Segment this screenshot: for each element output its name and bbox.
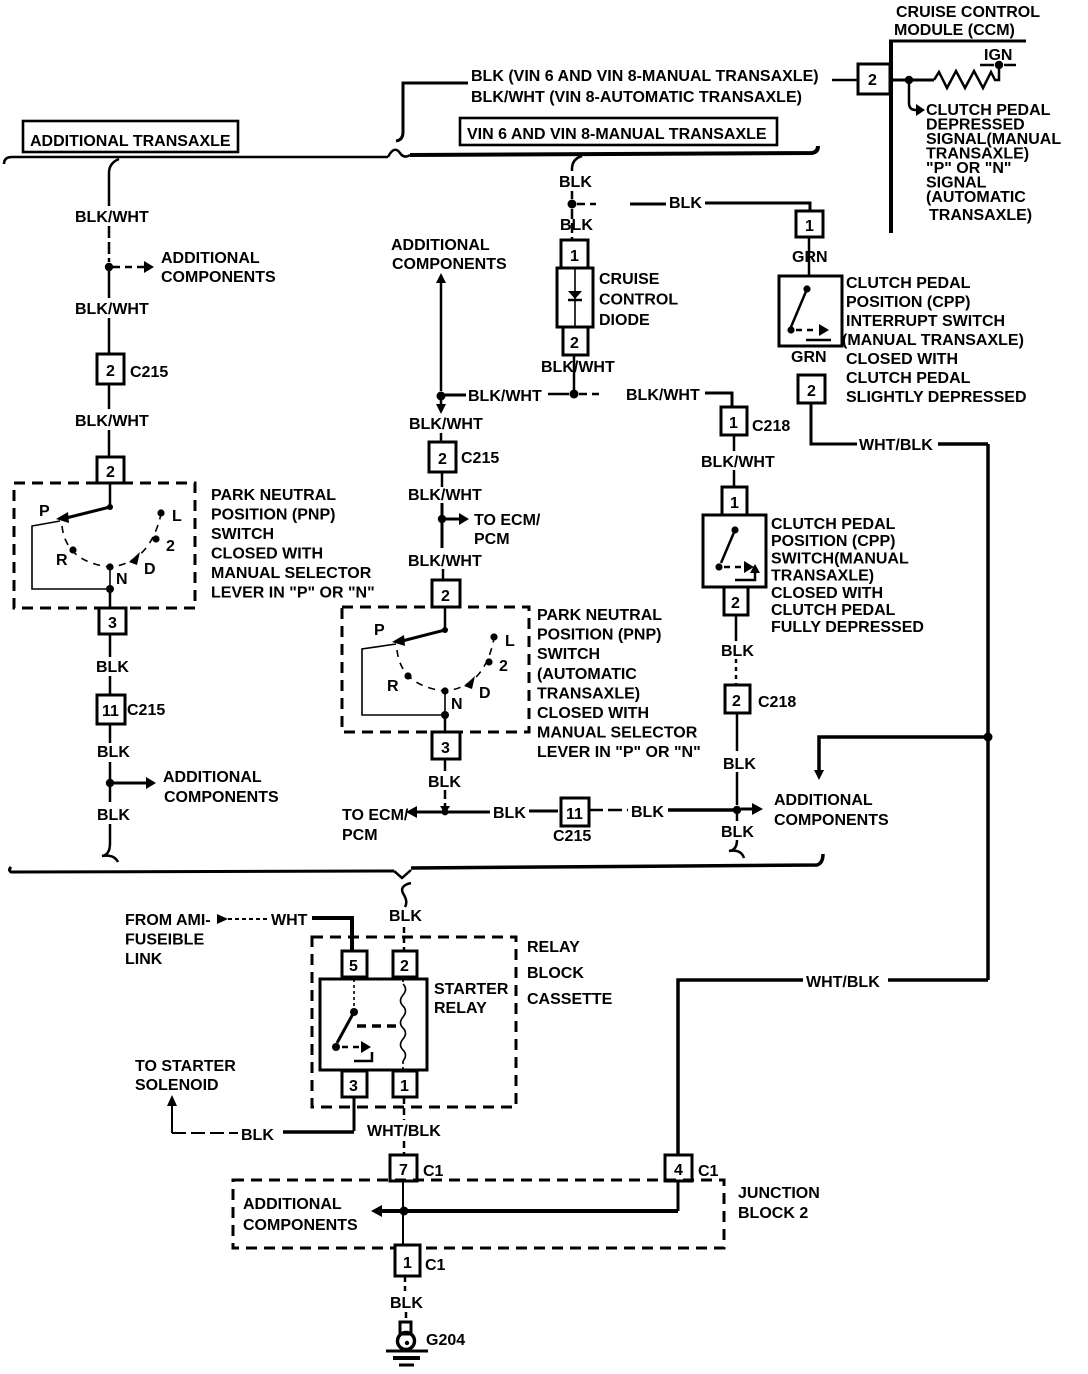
svg-text:P: P xyxy=(374,622,385,639)
svg-text:C1: C1 xyxy=(698,1163,719,1180)
svg-text:2: 2 xyxy=(106,464,115,481)
contact R xyxy=(404,672,411,679)
svg-text:BLK/WHT: BLK/WHT xyxy=(408,487,482,504)
connector 1 C218 (middle run) xyxy=(721,407,790,435)
svg-text:2: 2 xyxy=(499,658,508,675)
junction dot xyxy=(905,76,913,84)
label TO ECM/ PCM (bottom) xyxy=(342,807,409,844)
svg-text:STARTER: STARTER xyxy=(434,981,509,998)
wire pin2 to pivot xyxy=(109,483,112,507)
svg-text:MODULE (CCM): MODULE (CCM) xyxy=(894,22,1015,39)
relay coil to switch dashed link xyxy=(357,1024,398,1028)
svg-text:C215: C215 xyxy=(127,702,165,719)
connector 2 (CPP switch) xyxy=(724,587,748,615)
bus wire lower right xyxy=(411,854,823,868)
wire BLK into diode xyxy=(571,209,574,240)
wire xyxy=(108,226,111,262)
connector 2 (CPP interrupt switch) xyxy=(798,375,825,403)
wire WHT/BLK pin 1 down xyxy=(403,1097,406,1155)
svg-text:C215: C215 xyxy=(461,450,499,467)
relay coil xyxy=(401,979,406,1070)
label ADDITIONAL COMPONENTS xyxy=(161,250,276,286)
svg-text:CASSETTE: CASSETTE xyxy=(527,991,613,1008)
wire additional components run xyxy=(371,1181,678,1217)
wire BLK horizontal to ECM xyxy=(406,806,490,818)
svg-text:2: 2 xyxy=(868,72,877,89)
svg-text:BLK: BLK xyxy=(493,805,526,822)
relay switch K xyxy=(332,979,372,1061)
wire CCM internal to resistor xyxy=(891,79,934,82)
wire BLK/WHT drop from bus (left) xyxy=(109,159,119,206)
svg-text:BLK/WHT (VIN 8-AUTOMATIC TRANS: BLK/WHT (VIN 8-AUTOMATIC TRANSAXLE) xyxy=(471,89,802,106)
svg-text:CONTROL: CONTROL xyxy=(599,292,678,309)
svg-text:COMPONENTS: COMPONENTS xyxy=(161,269,276,286)
svg-text:ADDITIONAL: ADDITIONAL xyxy=(774,792,873,809)
wire WHT/BLK to right rail xyxy=(938,442,988,446)
contact 2 xyxy=(152,535,159,542)
svg-text:N: N xyxy=(116,571,128,588)
wire xyxy=(108,430,111,457)
svg-text:11: 11 xyxy=(102,703,119,720)
svg-text:WHT/BLK: WHT/BLK xyxy=(859,437,933,454)
node junction BLK xyxy=(568,200,577,209)
contact L xyxy=(490,633,497,640)
svg-text:PCM: PCM xyxy=(342,827,378,844)
wire BLK from bus to pin 2 xyxy=(402,883,411,951)
svg-text:VIN 6 AND VIN 8-MANUAL TRANSAX: VIN 6 AND VIN 8-MANUAL TRANSAXLE xyxy=(467,126,767,143)
relay pin 3 xyxy=(342,1071,367,1097)
wire stub to CCM connector xyxy=(832,79,857,82)
svg-text:2: 2 xyxy=(570,335,579,352)
wire WHT/BLK right rail xyxy=(986,444,990,980)
svg-text:TO ECM/: TO ECM/ xyxy=(342,807,409,824)
switch blade to P xyxy=(442,627,448,633)
contact frame wire xyxy=(362,644,441,715)
CPP interrupt switch S xyxy=(779,276,842,346)
svg-text:POSITION (PNP): POSITION (PNP) xyxy=(537,627,661,644)
wire BLK pin 3 to starter solenoid xyxy=(167,1095,354,1133)
svg-text:COMPONENTS: COMPONENTS xyxy=(774,812,889,829)
label PARK NEUTRAL POSITION (PNP) SWITCH (AUTOMATIC TRANSAXLE) xyxy=(537,607,701,761)
CCM boundary line xyxy=(889,41,1026,233)
PNP1 internals xyxy=(32,483,182,608)
svg-text:L: L xyxy=(172,508,182,525)
branch arrow to additional components xyxy=(741,803,763,815)
svg-text:WHT/BLK: WHT/BLK xyxy=(367,1123,441,1140)
svg-text:ADDITIONAL: ADDITIONAL xyxy=(243,1196,342,1213)
svg-text:CLOSED WITH: CLOSED WITH xyxy=(537,705,649,722)
wire 7 C1 down to 1 C1 xyxy=(402,1181,404,1245)
node junction BLK xyxy=(733,806,741,814)
connector 11 C215 (inline) xyxy=(553,798,591,845)
svg-text:C1: C1 xyxy=(423,1163,444,1180)
svg-text:JUNCTION: JUNCTION xyxy=(738,1185,820,1202)
svg-text:D: D xyxy=(479,685,491,702)
wire BLK xyxy=(735,615,738,641)
svg-text:BLK: BLK xyxy=(560,217,593,234)
wire arrow below junction xyxy=(436,400,446,414)
bus wire vin 6/8 manual transaxle xyxy=(410,146,818,155)
svg-text:N: N xyxy=(451,696,463,713)
relay pin 5 xyxy=(342,951,367,977)
svg-text:CLOSED WITH: CLOSED WITH xyxy=(846,351,958,368)
svg-text:3: 3 xyxy=(441,740,450,757)
wire branch up to additional components xyxy=(436,273,446,391)
wire N to output xyxy=(444,691,446,715)
svg-text:(MANUAL TRANSAXLE): (MANUAL TRANSAXLE) xyxy=(842,332,1024,349)
svg-text:BLK: BLK xyxy=(97,744,130,761)
svg-text:(AUTOMATIC: (AUTOMATIC xyxy=(926,189,1026,206)
svg-text:4: 4 xyxy=(674,1162,683,1179)
label TO ECM/ PCM xyxy=(474,512,541,548)
svg-text:C215: C215 xyxy=(130,364,168,381)
contact frame wire xyxy=(32,521,106,589)
svg-text:C218: C218 xyxy=(758,694,796,711)
svg-text:DIODE: DIODE xyxy=(599,312,650,329)
label ADDITIONAL COMPONENTS (junction block) xyxy=(243,1196,358,1234)
contact R xyxy=(69,546,76,553)
wire hook to lower bus xyxy=(102,787,118,862)
node junction BLK/WHT xyxy=(570,390,579,399)
svg-text:D: D xyxy=(144,561,156,578)
connector 7 C1 xyxy=(390,1155,444,1181)
svg-text:POSITION (CPP): POSITION (CPP) xyxy=(771,533,895,550)
svg-text:BLK: BLK xyxy=(723,756,756,773)
connector 1 (cruise control diode) xyxy=(561,240,588,268)
svg-text:BLK/WHT: BLK/WHT xyxy=(626,387,700,404)
node junction BLK/WHT (middle) xyxy=(437,392,446,401)
IGN terminal xyxy=(980,47,1016,69)
svg-text:3: 3 xyxy=(349,1078,358,1095)
svg-text:SWITCH: SWITCH xyxy=(211,526,274,543)
svg-text:C218: C218 xyxy=(752,418,790,435)
svg-text:RELAY: RELAY xyxy=(527,939,580,956)
svg-text:L: L xyxy=(505,633,515,650)
label JUNCTION BLOCK 2 xyxy=(738,1185,820,1222)
svg-text:BLK: BLK xyxy=(241,1127,274,1144)
label CRUISE CONTROL DIODE xyxy=(599,271,678,329)
svg-text:C215: C215 xyxy=(553,828,591,845)
svg-text:COMPONENTS: COMPONENTS xyxy=(392,256,507,273)
connector 2 C215 (middle) xyxy=(429,442,499,472)
wire xyxy=(108,318,111,354)
svg-text:1: 1 xyxy=(400,1078,409,1095)
svg-text:GRN: GRN xyxy=(791,349,827,366)
svg-text:R: R xyxy=(56,552,68,569)
svg-text:COMPONENTS: COMPONENTS xyxy=(243,1217,358,1234)
node junction + branch additional components xyxy=(106,762,156,789)
svg-text:BLK: BLK xyxy=(389,908,422,925)
wire WHT/BLK lower run xyxy=(678,980,988,1155)
svg-text:BLK: BLK xyxy=(631,804,664,821)
wire BLK xyxy=(109,724,112,743)
connector 2 C218 xyxy=(725,685,796,713)
wire xyxy=(529,810,558,813)
wire xyxy=(736,772,739,805)
contact L xyxy=(157,509,164,516)
svg-text:TRANSAXLE): TRANSAXLE) xyxy=(537,685,640,702)
wire to ground xyxy=(405,1276,406,1322)
svg-text:2: 2 xyxy=(441,588,450,605)
wire xyxy=(109,676,112,695)
label ADDITIONAL TRANSAXLE xyxy=(23,121,238,152)
contact arc dashed xyxy=(397,638,494,691)
svg-text:LEVER IN "P" OR "N": LEVER IN "P" OR "N" xyxy=(537,744,701,761)
svg-text:BLOCK 2: BLOCK 2 xyxy=(738,1205,808,1222)
svg-text:MANUAL SELECTOR: MANUAL SELECTOR xyxy=(537,725,698,742)
label PARK NEUTRAL POSITION (PNP) SWITCH xyxy=(211,487,375,602)
svg-text:PARK NEUTRAL: PARK NEUTRAL xyxy=(211,487,336,504)
svg-text:1: 1 xyxy=(730,495,739,512)
svg-text:1: 1 xyxy=(729,415,738,432)
connector 3 (PNP auto) xyxy=(432,732,460,759)
svg-text:BLK: BLK xyxy=(390,1295,423,1312)
wire BLK/WHT horizontal run xyxy=(445,393,732,407)
connector 2 (PNP manual) xyxy=(97,457,124,483)
svg-text:C1: C1 xyxy=(425,1257,446,1274)
module label CRUISE CONTROL MODULE (CCM) xyxy=(894,4,1040,39)
svg-text:1: 1 xyxy=(805,218,814,235)
relay block cassette dashed box xyxy=(312,937,516,1107)
contact 2 xyxy=(485,658,492,665)
svg-text:BLK (VIN 6 AND VIN 8-MANUAL TR: BLK (VIN 6 AND VIN 8-MANUAL TRANSAXLE) xyxy=(471,68,819,85)
svg-text:BLK/WHT: BLK/WHT xyxy=(468,388,542,405)
svg-text:LINK: LINK xyxy=(125,951,163,968)
wire BLK xyxy=(109,634,112,657)
svg-text:WHT: WHT xyxy=(271,912,308,929)
wire N to output xyxy=(109,567,111,589)
svg-text:BLK: BLK xyxy=(721,643,754,660)
wire xyxy=(735,659,738,685)
svg-text:G204: G204 xyxy=(426,1332,465,1349)
wire BLK drop from bus xyxy=(572,156,582,199)
signal branch arrow xyxy=(909,84,925,116)
cruise control diode D xyxy=(557,268,593,327)
svg-text:ADDITIONAL TRANSAXLE: ADDITIONAL TRANSAXLE xyxy=(30,133,231,150)
label clutch pedal position interrupt switch xyxy=(842,275,1027,406)
branch wire to additional components (right) xyxy=(814,737,984,780)
label ADDITIONAL COMPONENTS (middle) xyxy=(391,237,507,273)
svg-text:BLOCK: BLOCK xyxy=(527,965,584,982)
bus wire additional transaxle xyxy=(4,150,410,164)
svg-text:BLK: BLK xyxy=(559,174,592,191)
svg-text:BLK: BLK xyxy=(428,774,461,791)
svg-text:FULLY DEPRESSED: FULLY DEPRESSED xyxy=(771,619,924,636)
svg-text:TO ECM/: TO ECM/ xyxy=(474,512,541,529)
svg-text:ADDITIONAL: ADDITIONAL xyxy=(163,769,262,786)
svg-text:SWITCH: SWITCH xyxy=(537,646,600,663)
svg-text:BLK: BLK xyxy=(721,824,754,841)
svg-text:FUSEIBLE: FUSEIBLE xyxy=(125,932,204,949)
svg-text:FROM AMI-: FROM AMI- xyxy=(125,912,211,929)
svg-text:POSITION (PNP): POSITION (PNP) xyxy=(211,507,335,524)
wire WHT thick into pin 5 xyxy=(312,918,352,951)
CPP switch S (fully depressed) xyxy=(703,515,766,587)
svg-text:TO STARTER: TO STARTER xyxy=(135,1058,236,1075)
svg-text:SWITCH(MANUAL: SWITCH(MANUAL xyxy=(771,550,909,567)
wire WHT feeder xyxy=(217,914,268,924)
wire xyxy=(442,569,445,580)
svg-text:(AUTOMATIC: (AUTOMATIC xyxy=(537,666,637,683)
svg-text:CLUTCH PEDAL: CLUTCH PEDAL xyxy=(846,370,971,387)
svg-text:CRUISE: CRUISE xyxy=(599,271,660,288)
svg-text:BLK/WHT: BLK/WHT xyxy=(75,301,149,318)
label ADDITIONAL COMPONENTS (right) xyxy=(774,792,889,829)
svg-text:PCM: PCM xyxy=(474,531,510,548)
svg-text:BLK/WHT: BLK/WHT xyxy=(408,553,482,570)
wire thick to CPP column xyxy=(668,808,734,812)
svg-text:7: 7 xyxy=(399,1162,408,1179)
svg-text:BLK/WHT: BLK/WHT xyxy=(75,209,149,226)
svg-text:BLK/WHT: BLK/WHT xyxy=(409,416,483,433)
label TO STARTER SOLENOID xyxy=(135,1058,236,1094)
svg-text:3: 3 xyxy=(108,615,117,632)
svg-text:SOLENOID: SOLENOID xyxy=(135,1077,219,1094)
svg-text:RELAY: RELAY xyxy=(434,1000,487,1017)
svg-text:1: 1 xyxy=(570,248,579,265)
svg-text:R: R xyxy=(387,678,399,695)
label ADDITIONAL COMPONENTS xyxy=(163,769,279,806)
label clutch pedal depressed signal xyxy=(926,102,1061,224)
PNP2 internals xyxy=(362,607,515,732)
svg-text:ADDITIONAL: ADDITIONAL xyxy=(391,237,490,254)
contact arc dashed xyxy=(62,514,161,567)
connector 2 (CCM) xyxy=(858,64,890,94)
contact D arrow xyxy=(464,676,475,689)
wire BLK xyxy=(444,759,447,771)
svg-text:CLUTCH PEDAL: CLUTCH PEDAL xyxy=(846,275,971,292)
connector 1 C1 xyxy=(395,1245,446,1276)
svg-text:SLIGHTLY DEPRESSED: SLIGHTLY DEPRESSED xyxy=(846,389,1027,406)
wire BLK horizontal to CPP interrupt connector xyxy=(577,203,810,211)
label FROM AMI-FUSEIBLE LINK xyxy=(125,912,211,968)
wire hook to lower bus xyxy=(729,814,744,858)
connector 4 C1 xyxy=(665,1155,719,1181)
wire pin2 to pivot xyxy=(444,607,447,630)
svg-text:1: 1 xyxy=(403,1255,412,1272)
svg-text:BLK: BLK xyxy=(97,807,130,824)
svg-text:TRANSAXLE): TRANSAXLE) xyxy=(929,207,1032,224)
contact N xyxy=(106,563,113,570)
svg-text:BLK: BLK xyxy=(96,659,129,676)
svg-text:2: 2 xyxy=(731,595,740,612)
connector 2 (PNP auto) xyxy=(432,580,460,607)
connector 3 (PNP manual) xyxy=(99,608,126,634)
wire xyxy=(444,790,447,807)
svg-text:CLOSED WITH: CLOSED WITH xyxy=(211,546,323,563)
resistor (CCM pull-up) xyxy=(934,67,999,88)
connector 2 (cruise control diode) xyxy=(563,327,588,355)
label RELAY BLOCK CASSETTE xyxy=(527,939,613,1008)
svg-text:INTERRUPT SWITCH: INTERRUPT SWITCH xyxy=(846,313,1005,330)
svg-text:P: P xyxy=(39,503,50,520)
wire WHT/BLK from CPP interrupt xyxy=(811,403,857,444)
node junction xyxy=(400,1207,409,1216)
svg-text:PARK NEUTRAL: PARK NEUTRAL xyxy=(537,607,662,624)
contact D arrow xyxy=(129,552,140,565)
svg-text:BLK/WHT: BLK/WHT xyxy=(701,454,775,471)
PNP switch (automatic) dashed box xyxy=(342,607,529,732)
starter relay box xyxy=(320,979,427,1070)
svg-text:2: 2 xyxy=(807,383,816,400)
wire xyxy=(108,384,111,409)
connector 1 (CPP interrupt switch) xyxy=(796,211,823,237)
svg-text:2: 2 xyxy=(400,958,409,975)
relay pin 2 xyxy=(393,951,417,977)
svg-text:CLUTCH PEDAL: CLUTCH PEDAL xyxy=(771,516,896,533)
label clutch pedal position switch xyxy=(771,516,924,636)
bus notch at starter drop xyxy=(394,870,411,878)
svg-text:ADDITIONAL: ADDITIONAL xyxy=(161,250,260,267)
ground G204 xyxy=(386,1322,428,1365)
wire xyxy=(440,433,443,442)
wire to BLK/WHT node xyxy=(573,355,576,390)
wire BLK xyxy=(736,713,739,751)
svg-text:CLUTCH PEDAL: CLUTCH PEDAL xyxy=(771,602,896,619)
node junction + TO ECM/PCM branch xyxy=(438,503,469,548)
svg-text:2: 2 xyxy=(166,538,175,555)
relay pin 1 xyxy=(393,1071,417,1097)
switch blade to P xyxy=(107,504,113,510)
svg-text:BLK: BLK xyxy=(669,195,702,212)
svg-text:CRUISE CONTROL: CRUISE CONTROL xyxy=(896,4,1040,21)
svg-text:TRANSAXLE): TRANSAXLE) xyxy=(771,568,874,585)
svg-text:5: 5 xyxy=(349,958,358,975)
connector 1 (CPP switch) xyxy=(722,487,747,515)
wire xyxy=(733,435,736,487)
svg-text:COMPONENTS: COMPONENTS xyxy=(164,789,279,806)
svg-text:POSITION (CPP): POSITION (CPP) xyxy=(846,294,970,311)
node junction + branch additional components xyxy=(105,261,154,273)
contact N xyxy=(441,687,448,694)
svg-text:BLK/WHT: BLK/WHT xyxy=(541,359,615,376)
junction block 2 dashed box xyxy=(233,1180,724,1248)
connector 11 C215 xyxy=(97,695,165,724)
bus wire lower left xyxy=(10,867,395,872)
svg-text:2: 2 xyxy=(732,693,741,710)
svg-text:2: 2 xyxy=(438,451,447,468)
wire BLK feeder from CCM to bus xyxy=(396,83,468,141)
svg-text:2: 2 xyxy=(106,363,115,380)
label STARTER RELAY xyxy=(434,981,509,1017)
wire xyxy=(108,271,111,298)
svg-text:MANUAL SELECTOR: MANUAL SELECTOR xyxy=(211,565,372,582)
svg-text:CLOSED WITH: CLOSED WITH xyxy=(771,585,883,602)
svg-text:WHT/BLK: WHT/BLK xyxy=(806,974,880,991)
svg-text:LEVER IN "P" OR "N": LEVER IN "P" OR "N" xyxy=(211,585,375,602)
svg-text:11: 11 xyxy=(566,806,583,823)
wire xyxy=(589,809,628,812)
label VIN 6 AND VIN 8-MANUAL TRANSAXLE xyxy=(460,118,777,145)
svg-text:BLK/WHT: BLK/WHT xyxy=(75,413,149,430)
wire xyxy=(441,472,444,487)
PNP switch (manual) dashed box xyxy=(14,483,195,608)
connector 2 C215 xyxy=(97,354,168,384)
node junction on rail xyxy=(984,733,993,742)
wire GRN xyxy=(808,237,811,276)
